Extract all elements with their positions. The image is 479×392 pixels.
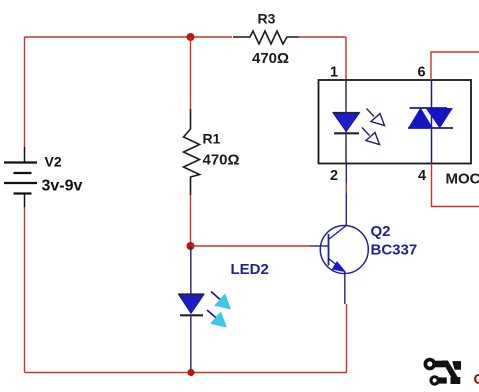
battery V2 plate 2 (short) (14, 172, 32, 174)
wire: red tint on collector wire (345, 183, 347, 193)
transistor Q2 base bar (328, 234, 330, 266)
LED2 cathode bar (180, 314, 203, 316)
opto triac left triangle (409, 109, 432, 128)
wire: base wire to transistor (191, 245, 311, 247)
svg-text:3v-9v: 3v-9v (42, 178, 83, 195)
opto triac right triangle (427, 109, 453, 128)
wire: base lead (navy) (310, 245, 321, 247)
LED2 diode triangle (179, 294, 205, 313)
svg-text:C: C (474, 371, 479, 388)
transistor Q2 collector diagonal (329, 226, 347, 240)
svg-text:2: 2 (330, 168, 338, 184)
opto LED triangle (333, 113, 360, 132)
wire: emitter to bottom rail (red) (346, 304, 348, 373)
battery V2 plate 3 (long) (4, 182, 37, 184)
svg-text:6: 6 (418, 65, 426, 81)
svg-text:R3: R3 (258, 11, 276, 27)
svg-text:470Ω: 470Ω (252, 50, 289, 67)
optocoupler U1 box (319, 80, 472, 164)
wire: left vertical from battery - to bottom rail (24, 207, 26, 373)
resistor R3 (233, 31, 299, 44)
wire: emitter down (navy) (344, 272, 346, 305)
transistor Q2 circle (320, 226, 368, 274)
wire: collector up to optocoupler pin 2 (345, 164, 347, 227)
node C: junction bottom rail (187, 369, 194, 376)
battery V2 plate 4 (short) (14, 192, 32, 194)
wire: bottom horizontal rail (25, 372, 348, 374)
battery V2 plate 1 (long) (4, 161, 37, 163)
LED2 emission arrow 1 (cyan) (211, 292, 230, 309)
transistor Q2 emitter diagonal (329, 259, 345, 272)
opto emission arrow 1 (outline) (367, 109, 385, 126)
svg-text:Q2: Q2 (371, 223, 391, 240)
opto triac bottom bar (408, 127, 453, 129)
opto triac top bar (410, 107, 448, 109)
opto triac vertical line (431, 80, 433, 164)
wire: left vertical from top rail to battery + (24, 37, 26, 147)
svg-text:V2: V2 (45, 154, 62, 170)
wire: pin 4 down and right (432, 164, 479, 207)
battery V2 terminal bottom lead (24, 194, 26, 207)
svg-text:LED2: LED2 (231, 261, 269, 278)
wire: top horizontal rail (25, 36, 233, 38)
wire: top rail corner down to opto pin 1 (345, 37, 347, 80)
transistor Q2 emitter arrowhead (333, 262, 345, 272)
svg-text:BC337: BC337 (371, 242, 418, 259)
battery V2 terminal top lead (24, 147, 26, 162)
opto LED cathode bar (334, 132, 359, 134)
LED2 anode lead (navy) (190, 246, 192, 294)
LED2 emission arrow 2 (cyan) (207, 310, 226, 327)
wire: LED2 cathode to bottom rail (190, 315, 192, 372)
wire: opto internal LED vertical (red) (345, 80, 347, 164)
svg-text:470Ω: 470Ω (203, 152, 240, 169)
svg-text:4: 4 (418, 168, 426, 184)
wire: from R1 down to base junction (190, 195, 192, 246)
transistor Q2 base line (321, 245, 329, 247)
logo: circuit icon bottom right (424, 358, 462, 386)
wire: pin 6 up and right (431, 52, 479, 80)
svg-text:MOC: MOC (446, 171, 479, 188)
resistor R1 (184, 109, 200, 195)
node A: junction top rail / R1 (187, 33, 195, 41)
svg-text:1: 1 (330, 65, 338, 81)
wire: from top junction down to R1 (190, 37, 192, 109)
svg-text:R1: R1 (203, 131, 221, 147)
wire: top rail right of R3 (299, 36, 346, 38)
opto emission arrow 2 (outline) (362, 128, 380, 145)
node B: junction R1 / base / LED2 (187, 242, 195, 250)
